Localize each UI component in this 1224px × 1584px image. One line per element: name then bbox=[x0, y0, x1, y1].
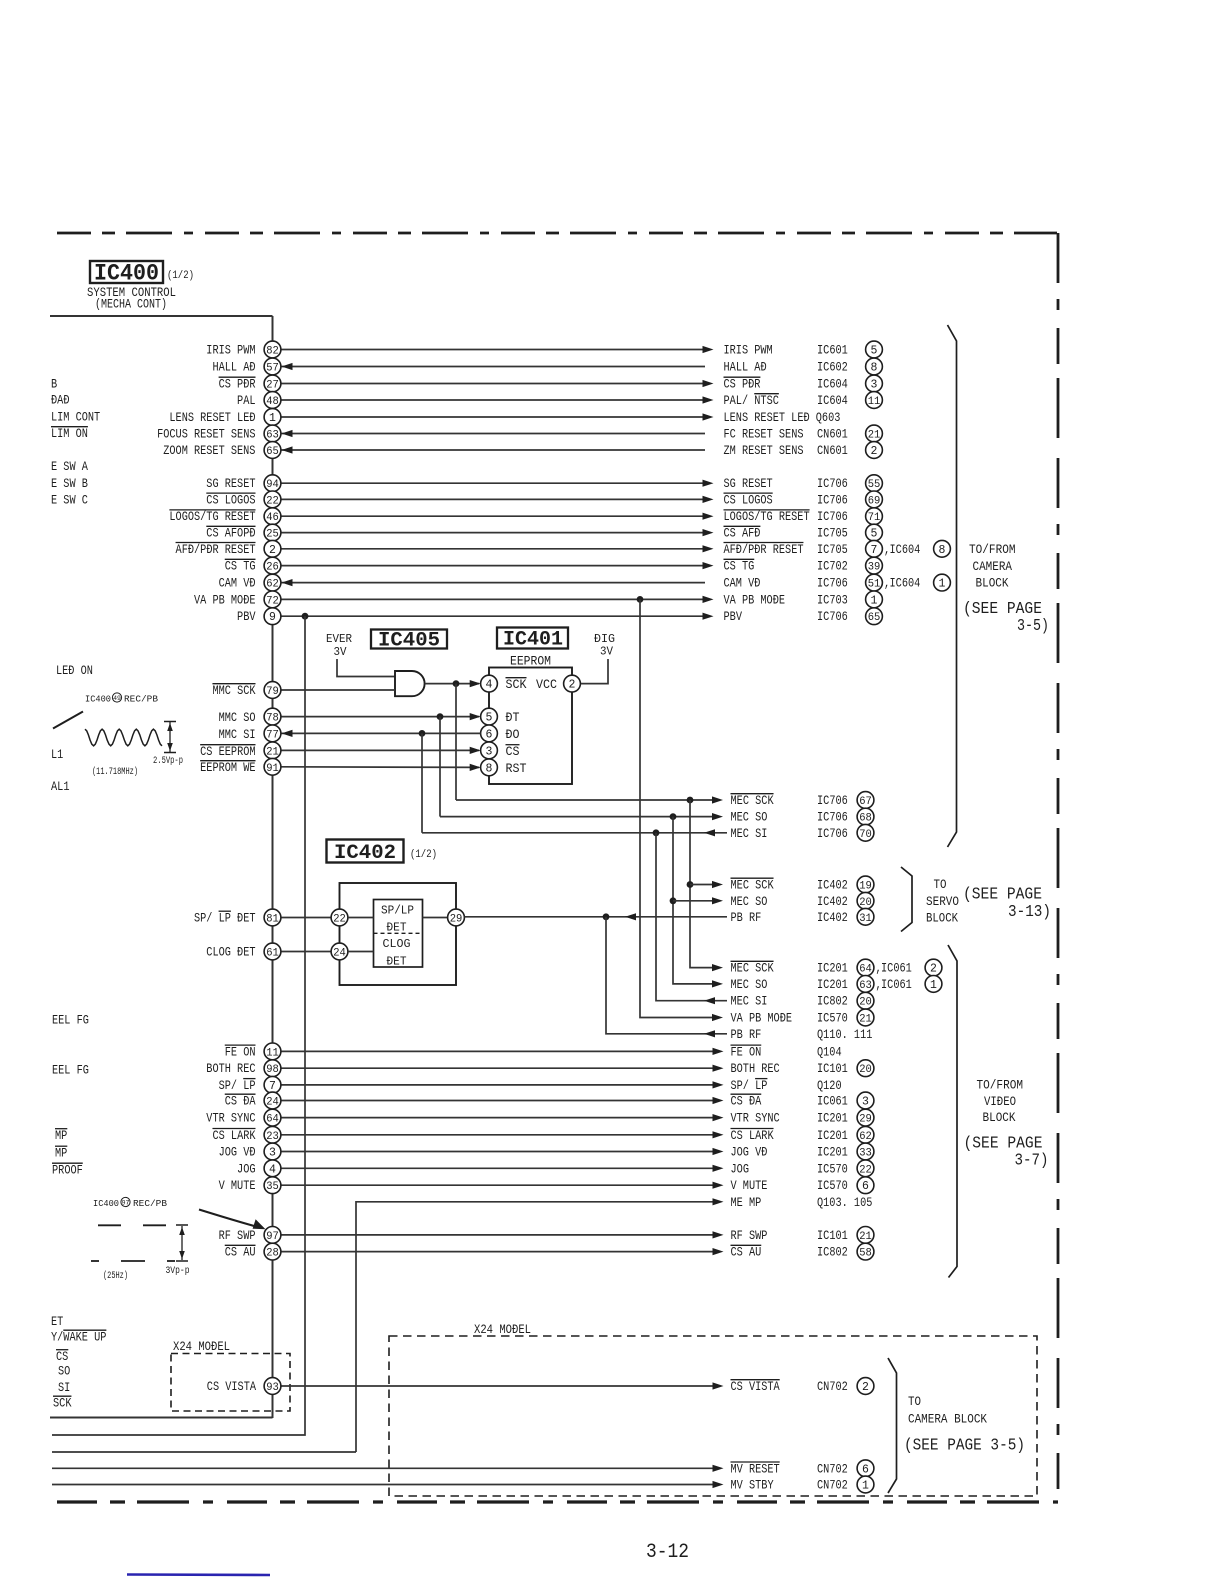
svg-text:21: 21 bbox=[868, 430, 881, 442]
svg-text:ĐET: ĐET bbox=[387, 922, 407, 935]
svg-text:PAL: PAL bbox=[237, 393, 256, 408]
svg-text:SP/ LP: SP/ LP bbox=[731, 1078, 768, 1093]
svg-text:94: 94 bbox=[266, 479, 279, 491]
svg-text:ZOOM RESET SENS: ZOOM RESET SENS bbox=[163, 443, 255, 458]
node label BOTH REC (right) bbox=[731, 1060, 874, 1077]
wire CS AU pin 28 row bbox=[281, 1248, 724, 1255]
svg-text:IC101: IC101 bbox=[817, 1061, 848, 1076]
svg-text:63: 63 bbox=[859, 980, 872, 992]
wire MEC SO net from pin5 junction down bbox=[439, 717, 441, 817]
svg-text:67: 67 bbox=[859, 796, 872, 808]
wire arrow MEC SO IC201 row bbox=[712, 980, 723, 987]
svg-text:51: 51 bbox=[868, 579, 881, 591]
wire MV RESET row bbox=[52, 1465, 724, 1472]
svg-text:IC201: IC201 bbox=[817, 977, 848, 992]
svg-text:(MECHA CONT): (MECHA CONT) bbox=[95, 298, 167, 312]
svg-text:19: 19 bbox=[859, 881, 872, 893]
svg-text:IC402: IC402 bbox=[817, 878, 848, 893]
svg-text:IC604: IC604 bbox=[817, 377, 848, 392]
pin 11 IC400 bbox=[264, 1043, 281, 1060]
svg-text:E SW B: E SW B bbox=[51, 476, 88, 491]
svg-text:MV RESET: MV RESET bbox=[731, 1461, 780, 1476]
svg-text:21: 21 bbox=[266, 746, 279, 758]
svg-text:98: 98 bbox=[266, 1064, 279, 1076]
svg-text:AFĐ/PĐR RESET: AFĐ/PĐR RESET bbox=[724, 542, 804, 557]
op-amp U4 — IC402 label bbox=[327, 840, 438, 866]
wire diagonal stroke below REC/PB annotation bbox=[53, 712, 83, 729]
svg-text:FC RESET SENS: FC RESET SENS bbox=[724, 427, 804, 442]
wire FE ON pin 11 row bbox=[281, 1048, 724, 1055]
bracket TO CAMERA BLOCK (bottom) bbox=[888, 1358, 1025, 1493]
svg-text:CAM VĐ: CAM VĐ bbox=[219, 576, 256, 591]
svg-text:CS ĐA: CS ĐA bbox=[225, 1094, 256, 1109]
wire arrow MEC SI IC802 row bbox=[704, 997, 715, 1004]
bracket TO/FROM CAMERA BLOCK bbox=[948, 325, 1050, 847]
pin 1 IC400 bbox=[264, 409, 281, 426]
svg-text:TO/FROM: TO/FROM bbox=[969, 543, 1016, 557]
svg-text:MMC SI: MMC SI bbox=[219, 727, 256, 742]
pin 24 IC400 bbox=[264, 1092, 281, 1109]
svg-text:1: 1 bbox=[939, 578, 946, 591]
svg-text:IC402: IC402 bbox=[817, 894, 848, 909]
svg-text:PBV: PBV bbox=[724, 609, 743, 624]
svg-text:3V: 3V bbox=[334, 645, 348, 659]
svg-text:MP: MP bbox=[55, 1128, 67, 1143]
svg-text:IC706: IC706 bbox=[817, 793, 848, 808]
svg-text:SERVO: SERVO bbox=[926, 895, 959, 909]
svg-text:(25Hz): (25Hz) bbox=[103, 1270, 128, 1282]
svg-text:LIM CONT: LIM CONT bbox=[51, 410, 100, 425]
svg-text:IC061: IC061 bbox=[881, 961, 912, 976]
waveform sine wave bbox=[85, 729, 162, 746]
svg-text:68: 68 bbox=[859, 813, 872, 825]
pin 72 IC400 bbox=[264, 591, 281, 608]
wire blue underline mark bottom left bbox=[127, 1573, 270, 1576]
node label MV STBY CN702 1 bbox=[731, 1476, 874, 1493]
wire MMC SCK pin 79 to gate bbox=[281, 689, 395, 691]
wire JOG pin 4 row bbox=[281, 1165, 724, 1172]
pin 94 IC400 bbox=[264, 475, 281, 492]
wire MV STBY row bbox=[52, 1481, 724, 1488]
svg-text:ĐAĐ: ĐAĐ bbox=[51, 393, 70, 408]
svg-text:72: 72 bbox=[266, 595, 279, 607]
svg-text:2: 2 bbox=[871, 445, 878, 458]
wire CS VISTA pin 93 row bbox=[281, 1382, 724, 1389]
svg-text:IC402: IC402 bbox=[334, 842, 396, 865]
svg-text:CS LARK: CS LARK bbox=[731, 1128, 774, 1143]
pin 7 IC400 bbox=[264, 1077, 281, 1094]
node label RF SWP (right) bbox=[731, 1227, 874, 1244]
node junction MEC SCK at IC402 row bbox=[687, 881, 694, 888]
pin 5 DT of IC401 bbox=[481, 708, 498, 725]
IC400 block outline right edge bus bbox=[272, 316, 274, 1418]
svg-text:55: 55 bbox=[868, 479, 881, 491]
svg-text:HALL AĐ: HALL AĐ bbox=[212, 360, 255, 375]
svg-text:PB RF: PB RF bbox=[731, 910, 762, 925]
svg-text:IC570: IC570 bbox=[817, 1161, 848, 1176]
svg-text:69: 69 bbox=[868, 495, 881, 507]
wire pin 24 to detector bbox=[348, 951, 374, 953]
svg-text:Q110. 111: Q110. 111 bbox=[817, 1027, 873, 1042]
svg-text:PB RF: PB RF bbox=[731, 1027, 762, 1042]
node label VA PB MODE IC570 21 bbox=[731, 1009, 874, 1026]
pin 63 IC400 bbox=[264, 425, 281, 442]
pin 24 IC402 bbox=[331, 943, 348, 960]
svg-text:FOCUS RESET SENS: FOCUS RESET SENS bbox=[157, 427, 256, 442]
svg-text:3: 3 bbox=[862, 1096, 869, 1109]
svg-text:1: 1 bbox=[269, 412, 276, 425]
wire MEC SI to IC706 row bbox=[422, 829, 727, 836]
svg-text:CAMERA BLOCK: CAMERA BLOCK bbox=[908, 1413, 987, 1427]
node label MEC SCK IC706 67 bbox=[731, 792, 874, 809]
node junction PB RF bbox=[603, 913, 610, 920]
svg-text:SCK: SCK bbox=[53, 1396, 72, 1411]
node label SG RESET (right) bbox=[724, 475, 883, 492]
svg-text:BOTH REC: BOTH REC bbox=[206, 1061, 255, 1076]
waveform annotation IC400 49 REC/PB sine 11.718MHz bbox=[85, 693, 158, 705]
svg-text:IC061: IC061 bbox=[881, 977, 912, 992]
node label JOG VĐ (right) bbox=[731, 1143, 874, 1160]
node label HALL AĐ (right) bbox=[724, 358, 883, 375]
svg-text:ZM RESET SENS: ZM RESET SENS bbox=[724, 443, 804, 458]
svg-text:Q104: Q104 bbox=[817, 1044, 842, 1059]
node label CS LOGOS (right) bbox=[724, 491, 883, 508]
node junction MEC SI column bbox=[653, 829, 660, 836]
svg-text:ET: ET bbox=[51, 1314, 63, 1329]
svg-text:25: 25 bbox=[266, 529, 279, 541]
pin 78 IC400 bbox=[264, 708, 281, 725]
node label AFĐ/PĐR RESET (right) bbox=[724, 540, 951, 557]
svg-text:24: 24 bbox=[333, 948, 346, 960]
pin 57 IC400 bbox=[264, 358, 281, 375]
svg-text:8: 8 bbox=[871, 362, 878, 375]
svg-text:58: 58 bbox=[859, 1248, 872, 1260]
svg-text:6: 6 bbox=[862, 1463, 869, 1476]
pin 2 IC400 bbox=[264, 540, 281, 557]
node label PB RF IC402 31 bbox=[731, 908, 874, 925]
wire SG RESET pin 94 row bbox=[281, 480, 714, 487]
svg-text:TO: TO bbox=[934, 878, 947, 892]
wire arrow PB RF Q110 row bbox=[704, 1030, 715, 1037]
svg-text:EEL FG: EEL FG bbox=[52, 1013, 89, 1028]
svg-text:(SEE PAGE: (SEE PAGE bbox=[963, 885, 1042, 904]
svg-text:22: 22 bbox=[333, 914, 346, 926]
svg-text:RST: RST bbox=[506, 761, 527, 776]
svg-text:BLOCK: BLOCK bbox=[926, 912, 958, 926]
svg-text:6: 6 bbox=[862, 1180, 869, 1193]
svg-text:IC706: IC706 bbox=[817, 509, 848, 524]
wire detector to pin 29 bbox=[423, 917, 448, 919]
svg-text:3Vp-p: 3Vp-p bbox=[166, 1266, 190, 1277]
wire MEC SI vertical to IC802 row bbox=[656, 833, 727, 1001]
svg-text:L1: L1 bbox=[51, 747, 63, 762]
svg-text:28: 28 bbox=[266, 1248, 279, 1260]
svg-text:RF SWP: RF SWP bbox=[731, 1228, 768, 1243]
wire VTR SYNC pin 64 row bbox=[281, 1114, 724, 1121]
node junction MMC SO bbox=[437, 713, 444, 720]
svg-text:SCK: SCK bbox=[506, 677, 527, 692]
svg-text:REC/PB: REC/PB bbox=[124, 694, 158, 705]
svg-text:78: 78 bbox=[266, 713, 279, 725]
wire MEC SCK net from pin4 junction down bbox=[455, 684, 457, 800]
svg-text:CS PĐR: CS PĐR bbox=[219, 377, 256, 392]
wire arrow VA PB MODE IC570 row bbox=[712, 1014, 723, 1021]
svg-text:VTR SYNC: VTR SYNC bbox=[731, 1111, 780, 1126]
pin 9 IC400 bbox=[264, 608, 281, 625]
svg-text:X24 MOĐEL: X24 MOĐEL bbox=[173, 1340, 230, 1354]
node label ME MP Q103 105 bbox=[731, 1195, 873, 1210]
svg-text:27: 27 bbox=[266, 380, 279, 392]
IC400 block outline bottom edge bbox=[50, 1417, 273, 1419]
svg-text:(11.718MHz): (11.718MHz) bbox=[92, 766, 138, 778]
node label MEC SO IC201 63 IC061 1 bbox=[731, 976, 942, 993]
svg-text:IC201: IC201 bbox=[817, 1128, 848, 1143]
svg-text:IC400: IC400 bbox=[93, 1198, 119, 1209]
svg-text:CS TG: CS TG bbox=[724, 559, 755, 574]
node label MEC SO IC402 20 bbox=[731, 892, 874, 909]
svg-text:11: 11 bbox=[868, 396, 881, 408]
node label MEC SO IC706 68 bbox=[731, 808, 874, 825]
svg-text:PAL/ NTSC: PAL/ NTSC bbox=[724, 393, 780, 408]
wire CS ĐA pin 24 row bbox=[281, 1097, 724, 1104]
wire SP/LP DET pin 81 to IC402 pin 22 bbox=[281, 917, 331, 919]
svg-text:BLOCK: BLOCK bbox=[976, 577, 1009, 591]
svg-text:IC601: IC601 bbox=[817, 343, 848, 358]
svg-text:MEC SI: MEC SI bbox=[731, 826, 768, 841]
svg-text:3-7): 3-7) bbox=[1015, 1151, 1049, 1170]
svg-text:CN702: CN702 bbox=[817, 1461, 848, 1476]
node label FE ON (right) bbox=[731, 1044, 842, 1059]
svg-text:65: 65 bbox=[266, 446, 279, 458]
op-amp U4 — IC402 inner detector box bbox=[374, 900, 423, 969]
wire MEC SO stub IC402 row bbox=[673, 897, 723, 904]
svg-text:IRIS PWM: IRIS PWM bbox=[724, 343, 773, 358]
svg-text:77: 77 bbox=[266, 729, 279, 741]
svg-text:JOG: JOG bbox=[731, 1161, 750, 1176]
svg-text:LIM ON: LIM ON bbox=[51, 426, 88, 441]
svg-text:V MUTE: V MUTE bbox=[219, 1178, 256, 1193]
svg-text:IC101: IC101 bbox=[817, 1228, 848, 1243]
node junction on VA PB MODE row bbox=[637, 596, 644, 603]
svg-text:9: 9 bbox=[269, 611, 276, 624]
node label CS VISTA CN702 2 (right) bbox=[731, 1378, 874, 1395]
svg-text:1: 1 bbox=[930, 979, 937, 992]
pin 77 IC400 bbox=[264, 725, 281, 742]
svg-text:SO: SO bbox=[58, 1364, 70, 1379]
svg-text:MEC SCK: MEC SCK bbox=[731, 961, 774, 976]
svg-text:29: 29 bbox=[450, 914, 463, 926]
pin 64 IC400 bbox=[264, 1109, 281, 1126]
svg-text:71: 71 bbox=[868, 512, 881, 524]
svg-text:48: 48 bbox=[266, 396, 279, 408]
svg-text:EEL FG: EEL FG bbox=[52, 1063, 89, 1078]
svg-text:LEĐ ON: LEĐ ON bbox=[56, 663, 93, 678]
svg-text:57: 57 bbox=[266, 363, 279, 375]
svg-text:CS AU: CS AU bbox=[225, 1245, 256, 1260]
pin 91 IC400 bbox=[264, 758, 281, 775]
node label FC RESET SENS (right) bbox=[724, 425, 883, 442]
page border (dash-dot frame) bbox=[57, 233, 1058, 1502]
svg-text:3: 3 bbox=[871, 379, 878, 392]
node label MEC SCK IC201 64 IC061 2 bbox=[731, 959, 942, 976]
svg-text:IC602: IC602 bbox=[817, 360, 848, 375]
svg-text:LENS RESET LEĐ: LENS RESET LEĐ bbox=[169, 410, 255, 425]
wire arrow MEC SCK IC201 row bbox=[712, 964, 723, 971]
svg-text:91: 91 bbox=[266, 763, 279, 775]
svg-text:CS AFĐ: CS AFĐ bbox=[724, 526, 761, 541]
svg-text:1: 1 bbox=[862, 1480, 869, 1493]
svg-text:IC702: IC702 bbox=[817, 559, 848, 574]
wire SP/ LP pin 7 row bbox=[281, 1081, 724, 1088]
wire gate output to EEPROM SCK pin 4 bbox=[425, 680, 481, 687]
wire AFĐ/PĐR RESET pin 2 row bbox=[281, 545, 714, 552]
wire MMC SI pin 77 from EEPROM DO pin 6 bbox=[281, 730, 481, 737]
svg-text:MEC SCK: MEC SCK bbox=[731, 793, 774, 808]
wire MEC SO vertical to IC402 and IC201 rows bbox=[673, 817, 715, 984]
bracket TO/FROM VIDEO BLOCK bbox=[948, 945, 1049, 1278]
pin 65 IC400 bbox=[264, 442, 281, 459]
svg-text:CS AU: CS AU bbox=[731, 1245, 762, 1260]
node label CAM VĐ (right) bbox=[724, 574, 951, 591]
svg-text:6: 6 bbox=[486, 728, 493, 741]
svg-text:7: 7 bbox=[269, 1080, 276, 1093]
wire PBV pin 9 row bbox=[281, 613, 714, 620]
svg-text:63: 63 bbox=[266, 430, 279, 442]
wire JOG VĐ pin 3 row bbox=[281, 1148, 724, 1155]
svg-text:62: 62 bbox=[859, 1131, 872, 1143]
svg-text:MEC SO: MEC SO bbox=[731, 810, 768, 825]
svg-text:ME MP: ME MP bbox=[731, 1195, 762, 1210]
node label ZM RESET SENS (right) bbox=[724, 442, 883, 459]
svg-text:5: 5 bbox=[486, 712, 493, 725]
pin 6 DO of IC401 bbox=[481, 725, 498, 742]
svg-text:LOGOS/TG RESET: LOGOS/TG RESET bbox=[169, 509, 255, 524]
wire CLOG DET pin 61 to IC402 pin 24 bbox=[281, 951, 331, 953]
node label CS AU (right) bbox=[731, 1243, 874, 1260]
svg-text:22: 22 bbox=[859, 1164, 872, 1176]
svg-text:(1/2): (1/2) bbox=[410, 849, 437, 861]
node label V MUTE (right) bbox=[731, 1177, 874, 1194]
svg-text:MMC SCK: MMC SCK bbox=[212, 683, 255, 698]
svg-text:E SW C: E SW C bbox=[51, 493, 88, 508]
svg-text:IC402: IC402 bbox=[817, 910, 848, 925]
svg-text:JOG VĐ: JOG VĐ bbox=[219, 1145, 256, 1160]
svg-text:22: 22 bbox=[266, 495, 279, 507]
svg-text:3-5): 3-5) bbox=[1017, 616, 1049, 635]
svg-text:EEPROM: EEPROM bbox=[510, 655, 551, 669]
pin 23 IC400 bbox=[264, 1126, 281, 1143]
svg-text:CS LOGOS: CS LOGOS bbox=[724, 492, 773, 507]
svg-text:CS LARK: CS LARK bbox=[212, 1128, 255, 1143]
wire CAM VĐ pin 62 row bbox=[281, 579, 705, 586]
svg-text:IC405: IC405 bbox=[378, 630, 440, 653]
svg-text:61: 61 bbox=[266, 948, 279, 960]
node label MEC SI IC802 20 bbox=[731, 992, 874, 1009]
svg-text:ĐO: ĐO bbox=[506, 727, 520, 742]
svg-text:IC604: IC604 bbox=[817, 393, 848, 408]
wire VA PB MODE vertical to IC570 row bbox=[640, 599, 715, 1017]
svg-text:21: 21 bbox=[859, 1014, 872, 1026]
svg-text:2: 2 bbox=[569, 679, 576, 692]
waveform measure arrow 2.5Vp-p bbox=[92, 722, 183, 779]
svg-text:CS LOGOS: CS LOGOS bbox=[206, 492, 255, 507]
svg-text:IC706: IC706 bbox=[817, 476, 848, 491]
wire RF SWP pin 97 row bbox=[281, 1231, 724, 1238]
svg-text:ĐT: ĐT bbox=[506, 710, 520, 725]
svg-text:SP/LP: SP/LP bbox=[381, 905, 414, 918]
pin 48 IC400 bbox=[264, 392, 281, 409]
node junction MEC SCK column bbox=[687, 797, 694, 804]
node junction on PBV row bbox=[302, 613, 309, 620]
node label PAL/ NTSC (right) bbox=[724, 392, 883, 409]
svg-text:IC201: IC201 bbox=[817, 1111, 848, 1126]
wire VA PB MOĐE pin 72 row bbox=[281, 596, 714, 603]
wire PB RF vertical to Q110 row bbox=[606, 917, 727, 1034]
svg-text:IC604: IC604 bbox=[890, 576, 921, 591]
svg-text:CAMERA: CAMERA bbox=[973, 560, 1013, 574]
svg-text:FE ON: FE ON bbox=[731, 1044, 762, 1059]
node label CS AFĐ (right) bbox=[724, 524, 883, 541]
svg-text:VCC: VCC bbox=[536, 677, 557, 692]
svg-text:62: 62 bbox=[266, 579, 279, 591]
svg-text:VA PB MOĐE: VA PB MOĐE bbox=[731, 1011, 793, 1026]
svg-text:CAM VĐ: CAM VĐ bbox=[724, 576, 761, 591]
svg-text:IC703: IC703 bbox=[817, 592, 848, 607]
svg-text:IC706: IC706 bbox=[817, 492, 848, 507]
svg-text:CN601: CN601 bbox=[817, 427, 848, 442]
op-amp U1 — IC400 system control block title bbox=[87, 261, 194, 312]
svg-text:SP/ LP: SP/ LP bbox=[219, 1078, 256, 1093]
svg-text:23: 23 bbox=[266, 1131, 279, 1143]
node label CS PĐR (right) bbox=[724, 375, 883, 392]
node label LENS RESET LEĐ Q603 (right) bbox=[724, 410, 841, 425]
svg-text:3-12: 3-12 bbox=[646, 1541, 689, 1564]
pin 25 IC400 bbox=[264, 524, 281, 541]
svg-text:EVER: EVER bbox=[326, 632, 352, 646]
wire MMC SO pin 78 to EEPROM DT pin 5 bbox=[281, 713, 481, 720]
svg-text:CS VISTA: CS VISTA bbox=[731, 1379, 780, 1394]
svg-text:11: 11 bbox=[266, 1047, 279, 1059]
wire ME MP row from vertical riser bbox=[356, 1198, 724, 1452]
svg-text:1: 1 bbox=[871, 594, 878, 607]
wire LOGOS/TG RESET pin 46 row bbox=[281, 513, 714, 520]
svg-text:IC802: IC802 bbox=[817, 994, 848, 1009]
svg-text:8: 8 bbox=[939, 544, 946, 557]
svg-text:REC/PB: REC/PB bbox=[133, 1198, 167, 1209]
wire BOTH REC pin 98 row bbox=[281, 1065, 724, 1072]
svg-text:20: 20 bbox=[859, 997, 872, 1009]
svg-text:CLOG ĐET: CLOG ĐET bbox=[206, 945, 255, 960]
svg-text:IC705: IC705 bbox=[817, 542, 848, 557]
svg-text:IC201: IC201 bbox=[817, 1145, 848, 1160]
svg-text:2: 2 bbox=[862, 1381, 869, 1394]
svg-text:IC706: IC706 bbox=[817, 576, 848, 591]
svg-text:5: 5 bbox=[871, 528, 878, 541]
svg-text:FE ON: FE ON bbox=[225, 1044, 256, 1059]
svg-text:29: 29 bbox=[859, 1114, 872, 1126]
X24 MODEL small dashed box bbox=[171, 1354, 290, 1412]
svg-text:MEC SO: MEC SO bbox=[731, 894, 768, 909]
wire DIG 3V to VCC pin 2 bbox=[581, 659, 608, 684]
svg-text:MEC SI: MEC SI bbox=[731, 994, 768, 1009]
svg-text:82: 82 bbox=[266, 346, 279, 358]
svg-text:IRIS PWM: IRIS PWM bbox=[206, 343, 255, 358]
wire MEC SCK vertical to IC402 and IC201 rows bbox=[690, 800, 715, 968]
svg-text:31: 31 bbox=[859, 913, 872, 925]
wire CS LARK pin 23 row bbox=[281, 1131, 724, 1138]
svg-text:IC061: IC061 bbox=[817, 1094, 848, 1109]
wire EVER 3V to gate input bbox=[337, 659, 395, 677]
